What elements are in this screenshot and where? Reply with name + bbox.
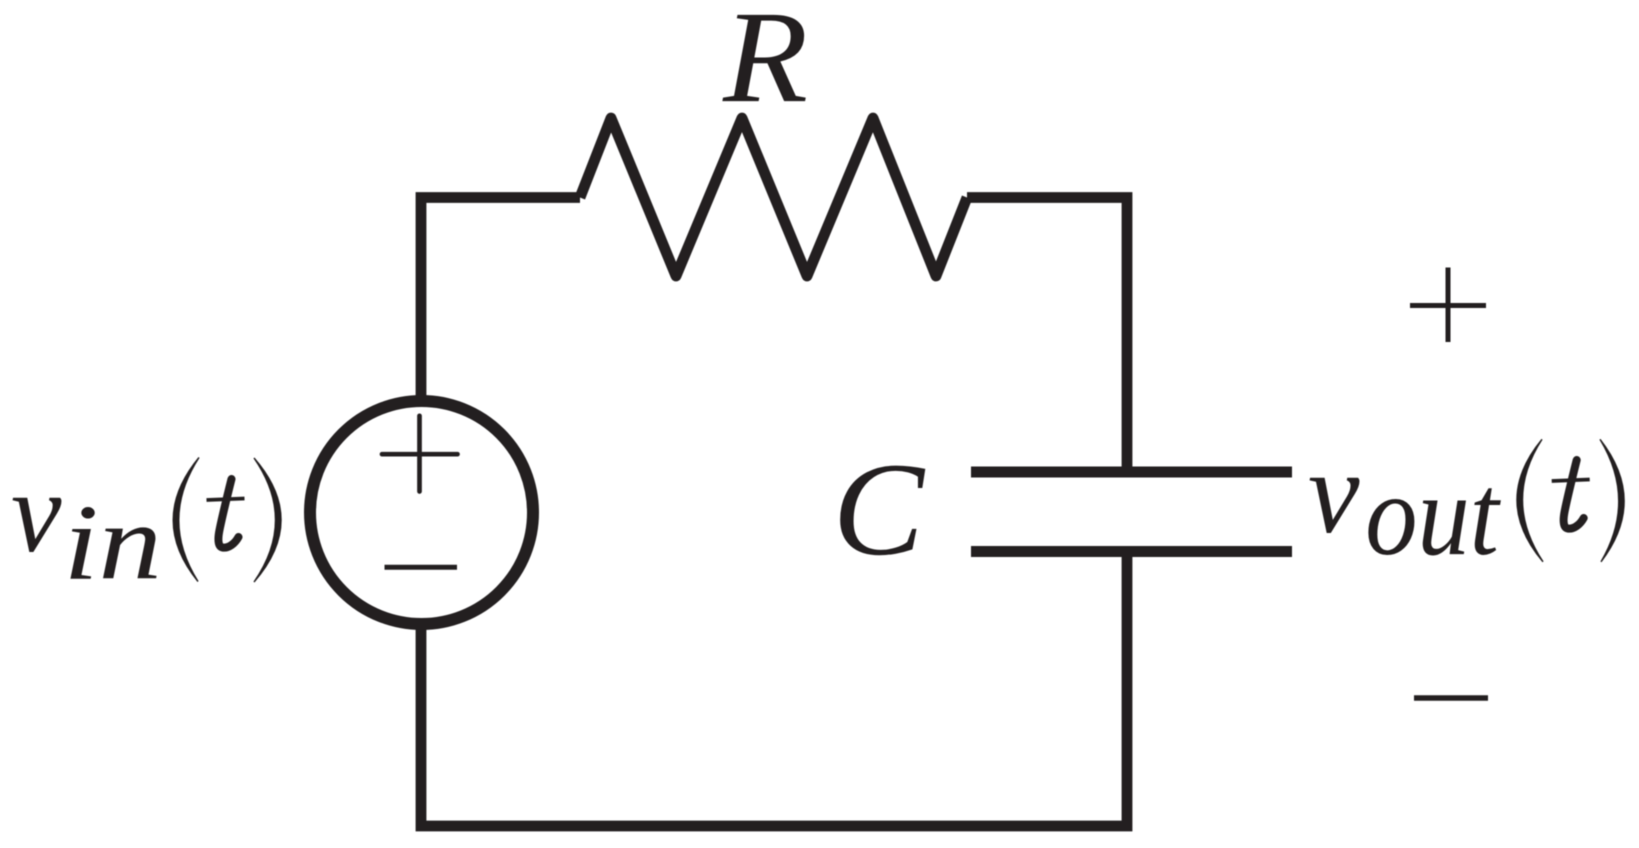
letter t of vin [207, 479, 245, 548]
source plus sign [382, 416, 458, 492]
label vin(t) [11, 448, 281, 602]
svg-text:C: C [833, 436, 926, 584]
paren ( of vin [173, 458, 199, 582]
paren ( of vout [1517, 439, 1543, 562]
svg-text:v: v [11, 448, 61, 576]
wire right-bottom-left: capacitor bottom around to source bottom [421, 552, 1127, 827]
vout minus sign [1414, 695, 1488, 701]
svg-text:R: R [722, 0, 808, 130]
letter t of vout [1552, 460, 1590, 529]
paren ) of vin [254, 458, 281, 582]
svg-text:in: in [63, 483, 162, 602]
voltage source circle [310, 401, 533, 624]
label vout(t) [1308, 428, 1624, 579]
svg-text:v: v [1308, 428, 1360, 558]
paren ) of vout [1600, 439, 1624, 562]
wire top-right: resistor to capacitor top [967, 198, 1127, 471]
source minus sign [385, 565, 458, 570]
capacitor C top plate [971, 467, 1292, 478]
wire left-top: from source top up and right to resistor [421, 198, 580, 402]
vout plus sign [1410, 268, 1486, 343]
svg-text:out: out [1365, 450, 1501, 580]
capacitor C bottom plate [971, 546, 1292, 557]
resistor R zigzag [580, 118, 967, 276]
